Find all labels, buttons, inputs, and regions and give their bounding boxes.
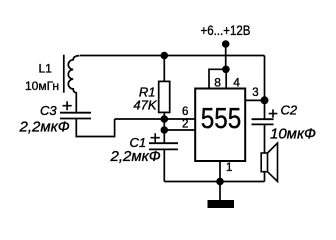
node B junction dot (pins 8/4 branch) (222, 66, 230, 74)
speaker body rect (261, 153, 267, 172)
inductor L1 core bar (63, 55, 65, 93)
node dot pin2 junction (161, 126, 169, 134)
inductor L1 winding (68, 56, 79, 113)
capacitor C1 plates (149, 143, 178, 149)
wire ground stub (219, 182, 221, 201)
ground (208, 200, 235, 208)
svg-text:L1: L1 (39, 61, 53, 75)
svg-text:C2: C2 (281, 103, 298, 118)
svg-text:1: 1 (226, 162, 232, 174)
wire pin 4 (225, 69, 227, 88)
svg-text:6: 6 (182, 106, 188, 118)
wire pin 3 line (245, 99, 264, 101)
svg-text:C3: C3 (40, 103, 57, 118)
node G junction dot (ground) (216, 178, 224, 186)
capacitor C1 plus sign (151, 133, 160, 142)
capacitor C2 plates (252, 119, 274, 124)
wire pin 2 line (164, 129, 195, 131)
wire supply stub (225, 44, 227, 69)
speaker horn (268, 143, 278, 182)
svg-text:+6...+12В: +6...+12В (201, 22, 251, 38)
wire C1 bottom (163, 149, 165, 181)
svg-text:555: 555 (201, 103, 242, 135)
svg-text:10мкФ: 10мкФ (270, 126, 316, 143)
svg-text:2,2мкФ: 2,2мкФ (110, 148, 161, 165)
op-amp/timer U1 555 box (195, 89, 245, 162)
capacitor C3 plus sign (63, 101, 72, 110)
capacitor C3 plates (60, 113, 91, 119)
wire R1 top (163, 56, 165, 82)
resistor R1 (159, 81, 170, 112)
node C junction dot (pin3 / rail) (261, 96, 269, 104)
wire speaker bottom (264, 172, 266, 182)
node A junction dot (rail to R1) (161, 52, 169, 60)
wire right rail (264, 56, 266, 120)
svg-text:2: 2 (182, 118, 188, 130)
wire C2 to speaker (264, 124, 266, 153)
svg-text:10мГн: 10мГн (25, 79, 59, 93)
wire pin 1 (219, 161, 221, 182)
svg-text:4: 4 (233, 76, 240, 90)
svg-text:3: 3 (252, 87, 258, 99)
wire C3 bottom zigzag to pin 6 line (76, 119, 114, 137)
wire pin 8 (209, 69, 226, 88)
power terminal dot +6...+12В (222, 40, 230, 48)
svg-text:2,2мкФ: 2,2мкФ (19, 118, 70, 135)
node dot pin6 junction (161, 115, 169, 123)
capacitor C2 plus sign (269, 109, 278, 117)
wire bottom rail (164, 181, 264, 183)
svg-text:8: 8 (214, 76, 221, 90)
wire R1 bottom to C1 (163, 112, 165, 143)
wire pin 6 line (115, 118, 196, 120)
svg-text:47K: 47K (133, 98, 157, 113)
wire top rail V+ (80, 55, 265, 57)
